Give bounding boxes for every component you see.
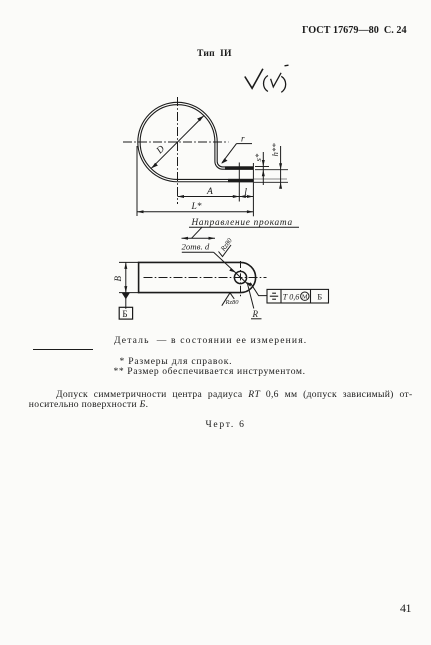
rolling direction note — [182, 218, 300, 240]
tolerance frame — [267, 289, 329, 303]
dimension D (diagonal) — [151, 116, 203, 168]
footnote separator rule — [33, 349, 93, 350]
left extension line — [136, 146, 138, 216]
dimension h** (offset height) — [279, 146, 282, 189]
svg-text:h**: h** — [270, 143, 280, 157]
vertical centerline of loop — [177, 97, 179, 204]
dimension l — [239, 195, 253, 198]
label 2 holes d — [182, 242, 254, 309]
symmetry symbol — [270, 293, 278, 299]
bottom view: strip outline with round end — [139, 262, 256, 292]
svg-text:R: R — [252, 309, 259, 319]
horizontal centerline of loop — [123, 141, 229, 143]
roughness Rz80 lower — [222, 293, 239, 306]
page number — [400, 601, 411, 616]
svg-text:s*: s* — [253, 153, 263, 161]
tolerance frame leader — [250, 283, 267, 296]
datum box — [119, 307, 132, 319]
svg-text:Б: Б — [122, 309, 127, 319]
right extension line — [252, 163, 254, 216]
figure caption — [206, 419, 246, 430]
dimension A — [178, 195, 240, 198]
surface finish mark: overall check — [245, 69, 263, 89]
bottom view horizontal centerline — [144, 277, 267, 279]
svg-text:М: М — [302, 294, 308, 301]
svg-text:B: B — [113, 276, 123, 282]
svg-text:r: r — [241, 134, 245, 144]
svg-text:A: A — [206, 187, 213, 197]
paragraph tolerance note — [29, 390, 421, 410]
leader R (end radius) — [251, 309, 262, 319]
svg-text:l: l — [244, 187, 247, 198]
svg-text:Т 0,6: Т 0,6 — [283, 292, 299, 301]
dimension L* — [137, 210, 253, 213]
svg-text:Rz80: Rz80 — [225, 299, 240, 306]
svg-text:2отв. d: 2отв. d — [182, 242, 210, 252]
svg-text:Rz80: Rz80 — [219, 236, 235, 253]
datum triangle B — [122, 293, 130, 300]
footnote 2 — [114, 366, 306, 377]
solid (sectioned) tail bars — [225, 166, 254, 169]
dimension s* (thickness) — [262, 152, 265, 185]
svg-text:Направление проката: Направление проката — [191, 218, 293, 228]
header GOST number — [302, 25, 407, 36]
svg-text:L*: L* — [191, 202, 202, 212]
hole position tick (top view) — [238, 163, 240, 202]
hole vertical centerline — [240, 261, 242, 296]
note: detail measured state — [114, 335, 307, 346]
clamp loop and tails (part outline, double line) — [139, 104, 254, 181]
surface finish mark: parenthesized check — [264, 65, 289, 92]
svg-text:Б: Б — [317, 292, 322, 301]
footnote 1 — [120, 356, 233, 367]
title Tip — [197, 48, 232, 59]
leader r (bend radius) — [221, 144, 252, 164]
hole — [234, 271, 246, 283]
roughness Rz80 upper — [219, 236, 235, 256]
dimension B — [119, 262, 139, 308]
extension lines right of tails — [254, 167, 288, 183]
